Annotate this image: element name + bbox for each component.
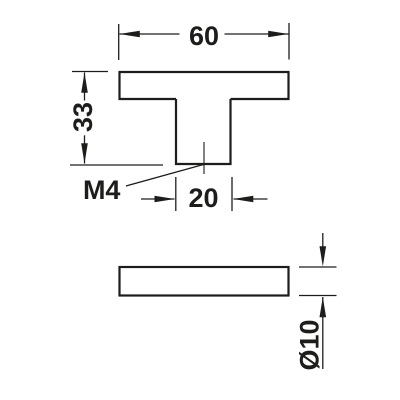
svg-text:20: 20 [188, 183, 218, 213]
svg-text:M4: M4 [83, 175, 121, 205]
svg-text:33: 33 [68, 102, 98, 132]
svg-text:Ø10: Ø10 [295, 319, 325, 370]
svg-text:60: 60 [189, 21, 219, 51]
